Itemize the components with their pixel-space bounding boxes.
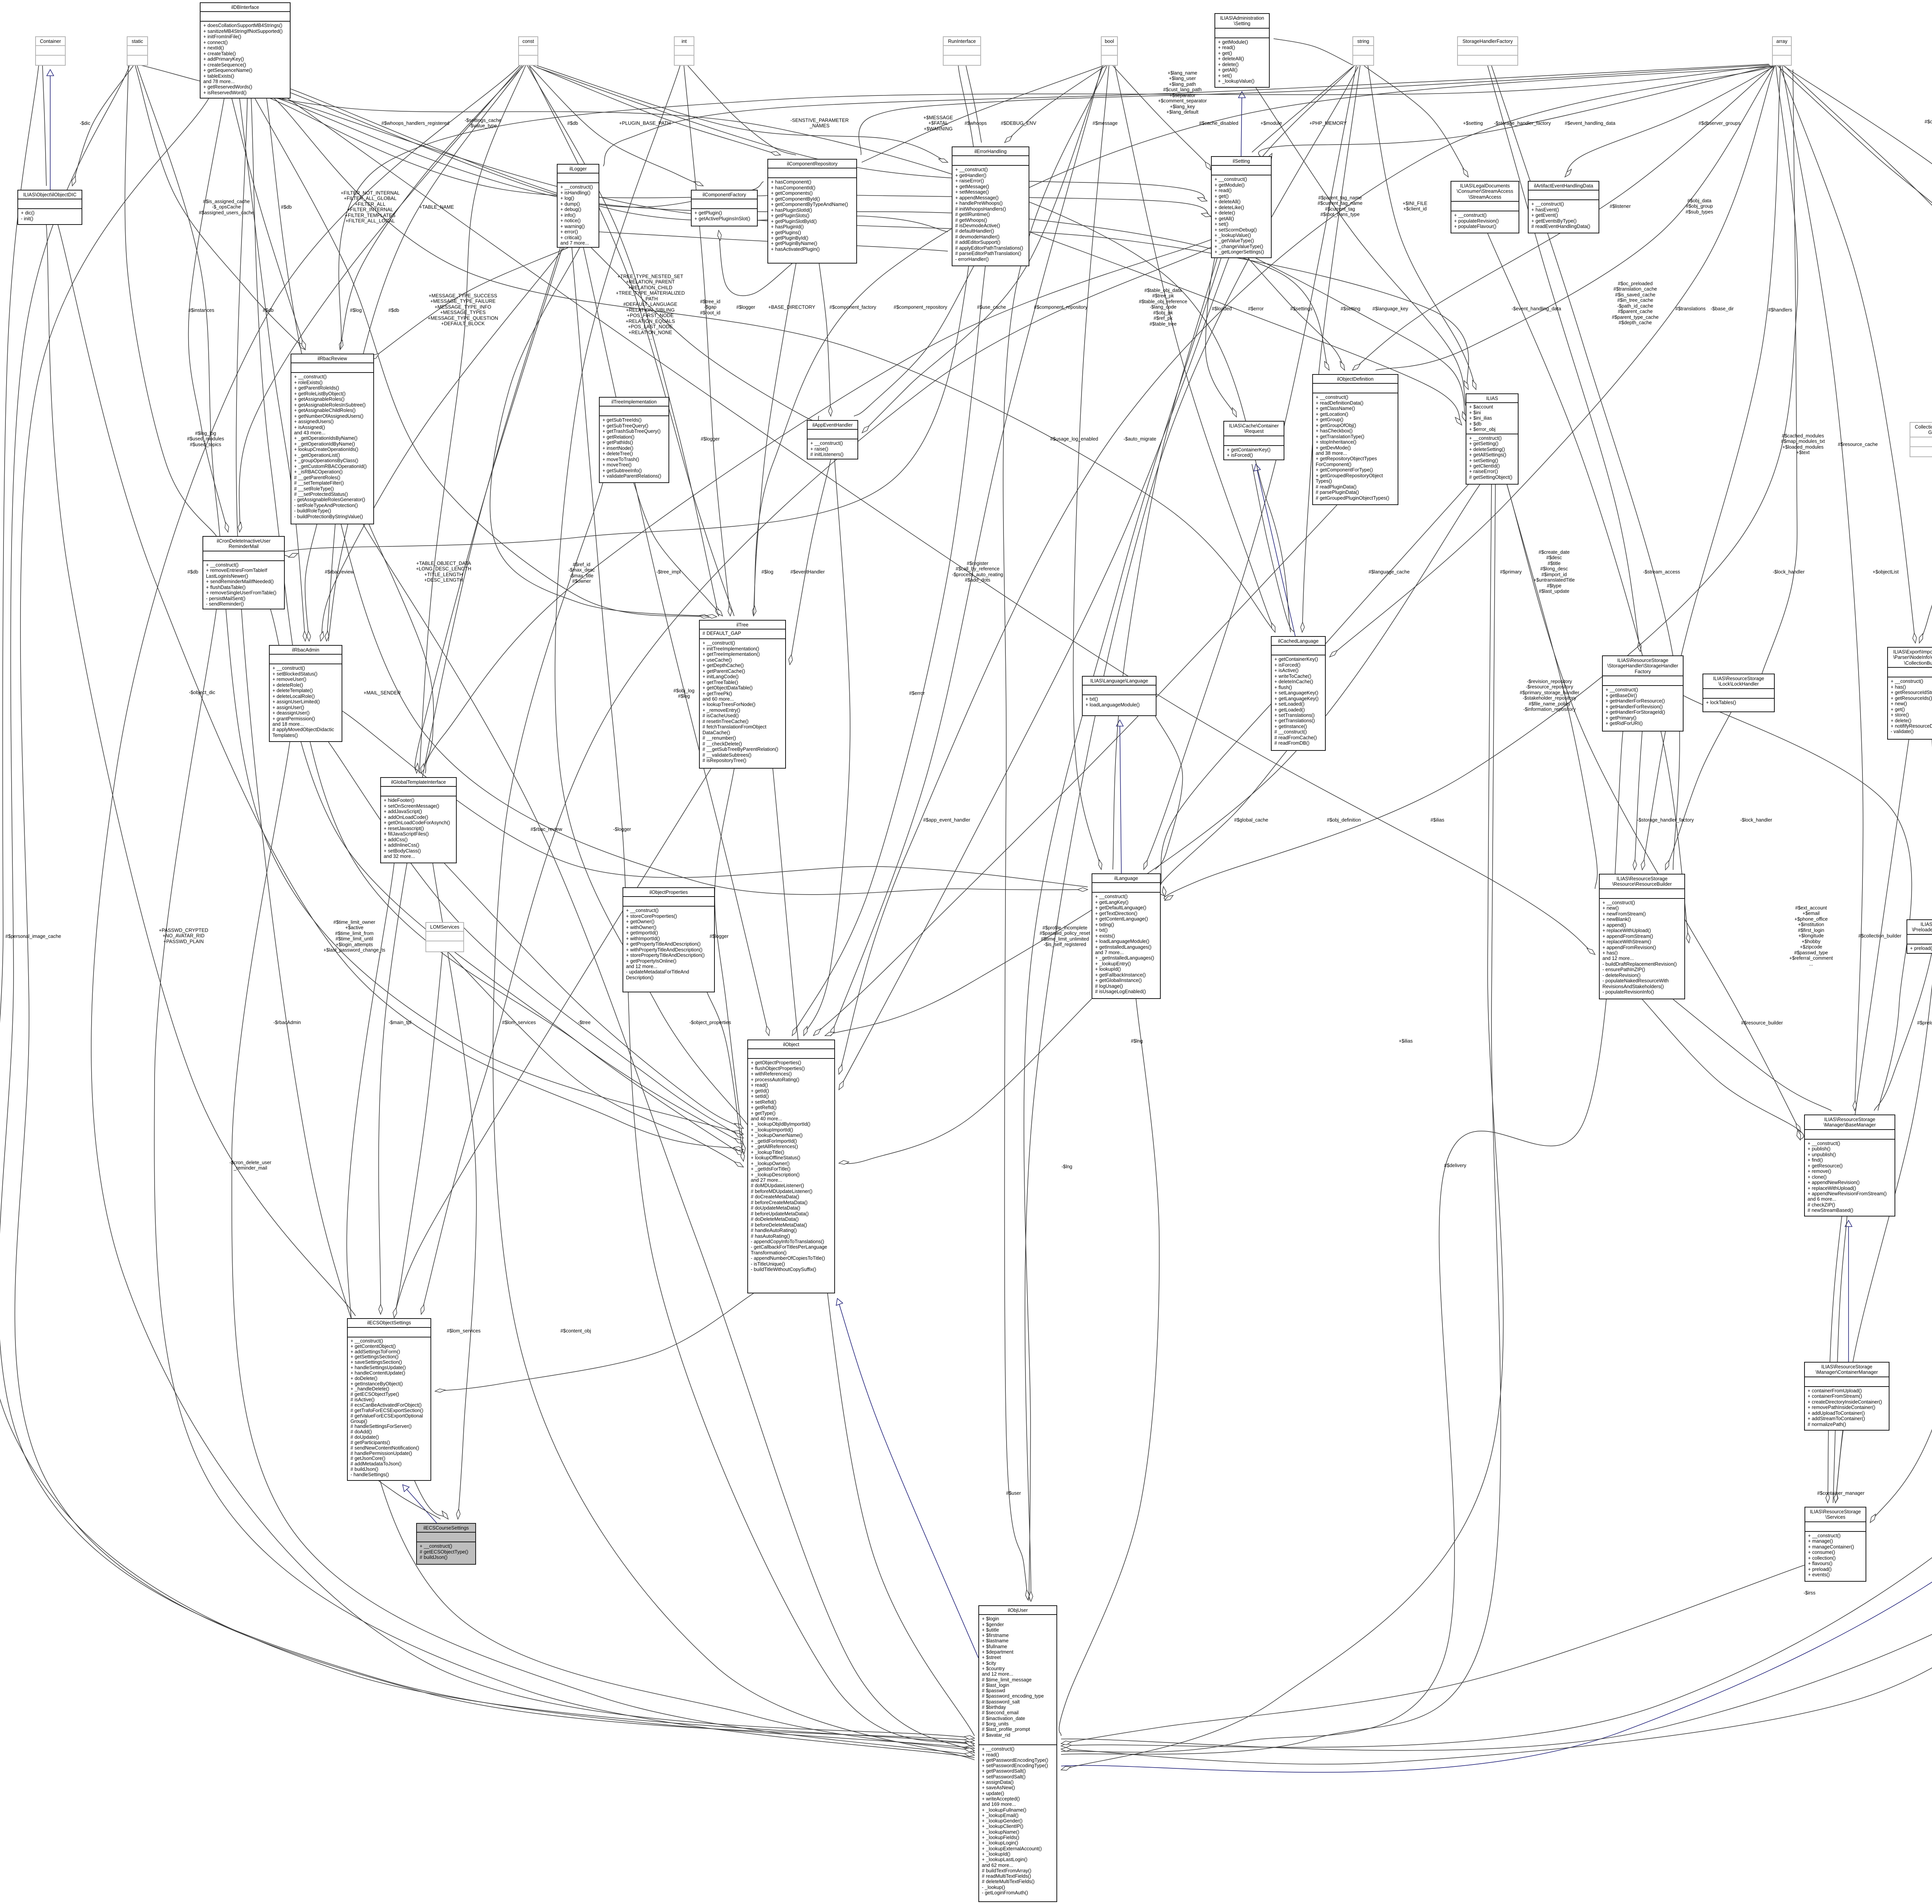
edge array-&gt;cachedlang bbox=[1330, 66, 1775, 657]
label #$handlers bbox=[1768, 307, 1792, 313]
class box artifactevent: ilArtifactEventHandlingData bbox=[1528, 181, 1599, 233]
edge string-&gt;cachecontainer bbox=[1206, 66, 1354, 417]
edge appevent-&gt;iltree bbox=[790, 459, 831, 665]
edge array-&gt;comprepo-arc bbox=[859, 65, 1770, 155]
label #$component_factory bbox=[829, 305, 876, 310]
label #$cached_modules bbox=[1781, 433, 1825, 456]
label #$content_obj bbox=[560, 1328, 591, 1334]
edge ilias-&gt;objuser2 bbox=[1061, 485, 1501, 1754]
edge objectdic-&gt;ecsobj bbox=[46, 225, 355, 1316]
edge illogger-&gt;ecsobj bbox=[379, 248, 560, 1314]
edge dbif-&gt;ecscourse bbox=[236, 99, 448, 1519]
edge static-&gt;ilObjectDIC bbox=[72, 66, 133, 186]
label #$lom_services bbox=[502, 1020, 536, 1025]
label #$dbserver_groups bbox=[1699, 121, 1741, 126]
edge ilObjUser-&gt;ilObject bbox=[837, 1298, 978, 1658]
label #$logger bbox=[736, 305, 755, 310]
edge bool-&gt;cachedlang bbox=[1115, 66, 1275, 632]
class box objuser: ilObjUser bbox=[978, 1605, 1057, 1902]
edge rbacreview-&gt;rbacadmin2 bbox=[328, 524, 348, 641]
label #$db bbox=[263, 308, 274, 313]
edge ilSetting-&gt;Administration.Setting bbox=[1241, 92, 1242, 156]
label #$oc_preloaded bbox=[1612, 281, 1658, 326]
edge Container-&gt;objectdic2 bbox=[43, 66, 46, 186]
label #$eventHandler bbox=[791, 569, 825, 575]
edge array-&gt;ilsetting bbox=[1259, 66, 1773, 162]
edge shfactory-&gt;resbuilder bbox=[1492, 66, 1680, 870]
label -$tree bbox=[578, 1020, 591, 1025]
label +$objectList bbox=[1872, 569, 1899, 575]
class box resbuilder: ILIAS\ResourceStorage \Resource\ResourceBuilder bbox=[1599, 874, 1685, 999]
edge dbif-&gt;objuser bbox=[15, 99, 975, 1741]
class box cron: ilCronDeleteInactiveUser ReminderMail bbox=[202, 536, 285, 609]
class box int: int bbox=[674, 36, 694, 66]
class box comprepo: ilComponentRepository bbox=[767, 159, 857, 264]
label #$use_cache bbox=[977, 305, 1006, 310]
edge runif-&gt;errorhandling bbox=[966, 66, 981, 143]
class box objdef: ilObjectDefinition bbox=[1312, 374, 1398, 505]
edge array-&gt;ilobject-arc bbox=[839, 67, 1771, 1074]
class box illogger: ilLogger bbox=[557, 164, 599, 248]
edge comprepo-&gt;iltree bbox=[753, 264, 796, 616]
label +$INI_FILE bbox=[1403, 201, 1427, 212]
class box string: string bbox=[1352, 36, 1374, 66]
edge string-&gt;cachedlang bbox=[1302, 66, 1360, 632]
label -$lock_handler bbox=[1740, 817, 1772, 823]
edge ilsetting-&gt;ilias bbox=[1256, 258, 1466, 421]
edge string-&gt;objuser bbox=[1025, 66, 1358, 1601]
edge bool-&gt;errorhandling bbox=[1005, 66, 1106, 143]
edge ilCachedLanguage-&gt;Cache.Container.Request bbox=[1256, 464, 1295, 636]
edge static-&gt;rbacreview bbox=[135, 66, 305, 350]
label #$rbac_review bbox=[531, 827, 562, 832]
label +FILTER_NOT_INTERNAL bbox=[341, 191, 400, 224]
label +PASSWD_CRYPTED bbox=[159, 927, 208, 944]
label #$component_repository bbox=[1034, 305, 1088, 310]
label #$user bbox=[1006, 1491, 1021, 1496]
label #$loaded bbox=[1212, 306, 1232, 311]
label +$ilias bbox=[1399, 1038, 1413, 1044]
edge containermanager-&gt;services bbox=[1835, 1431, 1843, 1503]
label -$main_tpl bbox=[389, 1020, 412, 1025]
edge ilsetting-&gt;objuser bbox=[1024, 258, 1221, 1601]
class box services: ILIAS\ResourceStorage \Services bbox=[1804, 1507, 1866, 1582]
edge bool-&gt;objuser bbox=[1003, 66, 1107, 1600]
edge bool-&gt;comprepo bbox=[862, 66, 1101, 162]
edge adminsetting-&gt;ilias bbox=[1256, 88, 1466, 406]
class box streamaccess: ILIAS\LegalDocuments \Consumer\StreamAccess \StreamAccess bbox=[1451, 181, 1519, 233]
edge dbif-&gt;ilobject bbox=[251, 99, 743, 1144]
edge objdef-&gt;ilobject bbox=[813, 505, 1337, 1036]
label -$cron_delete_user bbox=[230, 1160, 272, 1171]
class box lomservices: LOMServices bbox=[425, 922, 464, 952]
label #$error bbox=[909, 691, 925, 696]
class box ecsobj: ilECSObjectSettings bbox=[347, 1318, 431, 1481]
label #$db bbox=[567, 121, 578, 126]
edge ilLanguage-&gt;Language.Language bbox=[1120, 720, 1121, 873]
edge array-&gt;repository bbox=[1783, 66, 1932, 422]
class box rbacreview: ilRbacReview bbox=[291, 354, 374, 524]
label +$lang_name bbox=[1158, 70, 1207, 115]
label #$db bbox=[388, 308, 399, 313]
class box treeimpl: ilTreeImplementation bbox=[599, 397, 669, 483]
edge array-&gt;events_subject bbox=[1777, 66, 1932, 281]
label #$observer_groups bbox=[1925, 119, 1932, 124]
class box basemanager: ILIAS\ResourceStorage \Manager\BaseManager bbox=[1804, 1114, 1895, 1217]
label #$app_event_handler bbox=[923, 817, 970, 823]
class box bool: bool bbox=[1101, 36, 1118, 66]
label #$logger bbox=[709, 934, 728, 939]
edge ecsobj-course1 bbox=[379, 1481, 440, 1519]
label #$logger bbox=[701, 436, 719, 442]
edge errorhandling-&gt;ilias bbox=[1029, 232, 1462, 425]
class box ilias: ILIAS bbox=[1466, 393, 1519, 485]
label #$language_key bbox=[1372, 306, 1408, 311]
label -$event_handling_data bbox=[1512, 306, 1561, 311]
class box shstoragehandler: ILIAS\ResourceStorage \StorageHandler\StorageHandler Factory bbox=[1602, 655, 1684, 732]
label #$collection_builder bbox=[1858, 933, 1901, 939]
class box runif: RunInterface bbox=[943, 36, 981, 66]
edge ilias-&gt;illanguage bbox=[1161, 485, 1468, 885]
label #$register bbox=[952, 561, 1003, 583]
label #$DEBUG_ENV bbox=[1001, 121, 1036, 126]
edge ContainerManager-&gt;BaseManager bbox=[1848, 1220, 1849, 1362]
class box cachecontainer: ILIAS\Cache\Container \Request bbox=[1223, 421, 1284, 460]
edge rbacreview-&gt;objuser-long bbox=[363, 524, 975, 1753]
edge array-&gt;objdef2 bbox=[1376, 66, 1774, 370]
class box dbif: ilDBInterface bbox=[200, 2, 291, 99]
class box objprops: ilObjectProperties bbox=[622, 887, 715, 992]
class box gtpl: ilGlobalTemplateInterface bbox=[380, 777, 457, 863]
edge bool-&gt;ilobject bbox=[831, 66, 1102, 1036]
label +TABLE_NAME bbox=[419, 204, 454, 210]
edge comprepo-&gt;appevent bbox=[819, 264, 831, 416]
edge Container-&gt;objuser bbox=[0, 66, 975, 1744]
label -$storage_handler_factory bbox=[1494, 121, 1551, 126]
edge dbif-&gt;illanguage bbox=[267, 99, 1088, 895]
edge dbif-&gt;comprepo bbox=[291, 93, 764, 207]
edge string-&gt;ilias bbox=[1368, 66, 1476, 390]
edge array-&gt;basemanager bbox=[1782, 66, 1863, 1111]
edge int-&gt;iltree bbox=[684, 66, 730, 616]
label -$storage_handler_factory bbox=[1637, 817, 1694, 823]
edge ilECSCourseSettings-&gt;ilECSObjectSettings bbox=[403, 1485, 437, 1523]
label #$setting bbox=[1340, 306, 1360, 311]
label #$language_cache bbox=[1369, 569, 1410, 575]
edge dbif-&gt;rbacadmin bbox=[240, 99, 305, 641]
label #$obj_definition bbox=[1327, 817, 1361, 823]
edge dateformat-&gt;objuser bbox=[1061, 1558, 1932, 1764]
class box lockhandler: ILIAS\ResourceStorage \Lock\LockHandler bbox=[1702, 674, 1775, 712]
label #$db bbox=[281, 204, 292, 210]
label #$table_obj_data bbox=[1139, 288, 1187, 327]
edge streamaccess-&gt;resbuilder bbox=[1488, 233, 1689, 943]
edge lomservices-&gt;ecsobj bbox=[394, 952, 442, 1318]
label -$object_properties bbox=[689, 1020, 731, 1025]
edge ilsetting-&gt;gtpl bbox=[425, 240, 1211, 773]
label #$is_assigned_cache bbox=[199, 199, 254, 215]
edge iltree-&gt;objuser bbox=[773, 769, 975, 1736]
edge resbuilder-&gt;basemanager bbox=[1642, 999, 1804, 1140]
edge gtpl-&gt;objuser bbox=[347, 863, 975, 1751]
label #$container_manager bbox=[1817, 1491, 1865, 1496]
edge langlang-&gt;illanguage-r bbox=[1155, 716, 1183, 869]
edge array-&gt;objuser-right bbox=[1061, 66, 1932, 1747]
edge shstoragehandler-&gt;resbuilder bbox=[1634, 732, 1642, 870]
label #$component_repository bbox=[894, 305, 947, 310]
label +TREE_TYPE_NESTED_SET bbox=[616, 274, 685, 340]
edge const-&gt;ilsetting bbox=[537, 68, 1207, 201]
edge objectdic-&gt;ilobject bbox=[58, 225, 743, 1150]
label -$logger bbox=[613, 827, 631, 832]
edge right-arc-&gt;objuser bbox=[1061, 454, 1932, 1751]
label #$global_cache bbox=[1234, 817, 1268, 823]
label #$listener bbox=[1610, 204, 1631, 209]
edge ilias-&gt;objuser bbox=[1061, 485, 1503, 1770]
edge gtpl-&gt;ecscourse bbox=[433, 863, 476, 1519]
label #$delivery bbox=[1444, 1163, 1466, 1168]
edge array-&gt;collbuilder bbox=[1779, 66, 1915, 643]
edge bool-&gt;illanguage bbox=[1073, 66, 1109, 869]
class box iltree: ilTree bbox=[699, 620, 786, 769]
edge collbuilder-&gt;basemanager bbox=[1874, 740, 1932, 1111]
edge const-&gt;iltree2 bbox=[529, 66, 734, 616]
edge illogger-&gt;objuser-left bbox=[572, 248, 975, 1746]
label #$error bbox=[1248, 306, 1264, 311]
class box collbuilder: ILIAS\Export\ImportHandler \Parser\NodeInfo\Collection \CollectionBuilder bbox=[1887, 647, 1932, 740]
edge array-&gt;resbuilder bbox=[1642, 66, 1781, 870]
label #$ilias bbox=[1430, 817, 1444, 823]
edge rbacreview-&gt;rbacadmin bbox=[305, 524, 317, 641]
label +$module bbox=[1260, 121, 1282, 126]
label +$MESSAGE bbox=[923, 115, 953, 131]
label #$preloader bbox=[1917, 1020, 1932, 1026]
edge array-&gt;rbacreview-arc bbox=[339, 66, 1770, 350]
edge treeimpl-&gt;iltree bbox=[634, 483, 723, 616]
label +BASE_DIRECTORY bbox=[768, 305, 815, 310]
label #$whoops bbox=[964, 121, 986, 126]
edge cron-&gt;ilobject bbox=[270, 609, 743, 1155]
edge dbif-&gt;cron bbox=[189, 99, 228, 532]
edge objuser-&gt;Component(traits) bbox=[1061, 70, 1932, 1772]
label -$tree_impl bbox=[656, 569, 681, 575]
class box ilsetting: ilSetting bbox=[1211, 156, 1272, 258]
class box adminsetting: ILIAS\Administration \Setting bbox=[1214, 13, 1270, 88]
class box repopreloader: ILIAS\ResourceStorage \Preloader\RepositoryPreloader bbox=[1906, 919, 1932, 954]
label -$base_dir bbox=[1711, 306, 1734, 311]
edge cachedlang-&gt;illanguage bbox=[1158, 751, 1287, 897]
edge dbif-&gt;resbuilder bbox=[288, 99, 1595, 955]
edge gtpl-&gt;ilobject bbox=[444, 863, 743, 1128]
edge dbif-&gt;cachedlang bbox=[274, 99, 1275, 632]
label #$create_date bbox=[1534, 550, 1575, 594]
label #$cache_disabled bbox=[1199, 121, 1238, 126]
edge runif-&gt;cron bbox=[282, 66, 977, 557]
edge ilias-&gt;ilobject bbox=[825, 485, 1480, 1036]
class box static: static bbox=[127, 36, 148, 66]
class box langlang: ILIAS\Language\Language bbox=[1082, 676, 1156, 716]
class box collid: CollectionIdentification Generator bbox=[1910, 422, 1932, 457]
edge rbacadmin-&gt;objuser bbox=[232, 742, 975, 1755]
edge int-&gt;comprepo bbox=[688, 66, 796, 155]
edge const-&gt;errorhandling bbox=[537, 66, 948, 162]
label +$setting bbox=[1463, 121, 1483, 126]
edge ilsetting-&gt;objdef bbox=[1248, 258, 1345, 370]
edge const-&gt;compfactory bbox=[529, 66, 703, 186]
class box objectdic: ILIAS\Object\ilObjectDIC bbox=[17, 190, 82, 225]
label -$irss bbox=[1804, 1590, 1816, 1596]
label -SENSTIVE_PARAMETER bbox=[791, 118, 849, 129]
edge repopreloader-&gt;services bbox=[1835, 954, 1932, 1503]
edge illogger-&gt;gtpl bbox=[415, 248, 562, 773]
label -$revision_repository bbox=[1520, 679, 1579, 713]
edge ilsetting-&gt;ecsobj bbox=[421, 247, 1211, 1314]
edge shfactory-&gt;shstoragehandler bbox=[1488, 66, 1640, 652]
label #$usage_log_enabled bbox=[1050, 436, 1098, 442]
class box rbacadmin: ilRbacAdmin bbox=[269, 645, 342, 742]
class box compfactory: ilComponentFactory bbox=[691, 190, 758, 226]
class box array: array bbox=[1772, 36, 1792, 66]
edge objprops-&gt;ilobject bbox=[707, 992, 743, 1161]
label #$ref_id bbox=[568, 562, 595, 584]
edge ilias-&gt;resbuilder bbox=[1507, 485, 1597, 889]
label -$dic bbox=[80, 121, 90, 126]
edge cron-&gt;objuser bbox=[154, 609, 975, 1758]
edge lomservices-&gt;ilobject bbox=[448, 952, 743, 1167]
edge resbuilder-&gt;basemanager2 bbox=[1673, 999, 1832, 1111]
label #$time_limit_owner bbox=[323, 920, 385, 953]
edge static-&gt;objuser bbox=[0, 66, 975, 1748]
edge string-&gt;adminsetting bbox=[1274, 39, 1352, 65]
edge services-&gt;objuser bbox=[1061, 1565, 1804, 1744]
edge ilias-&gt;basemanager bbox=[1507, 485, 1801, 1132]
edge illogger-&gt;iltree bbox=[490, 248, 717, 617]
edge array-&gt;iltree-arc bbox=[753, 66, 1772, 616]
edge const-&gt;rbacadmin bbox=[327, 66, 522, 641]
edge rbacadmin-&gt;illanguage bbox=[342, 711, 1088, 887]
label #$ext_account bbox=[1789, 905, 1833, 967]
label #$translations bbox=[1675, 306, 1706, 311]
edge illogger-&gt;errorhandling bbox=[599, 232, 948, 251]
class box shfactory: StorageHandlerFactory bbox=[1457, 36, 1518, 66]
edge dbif-&gt;rbacreview bbox=[232, 99, 305, 350]
label -$stream_access bbox=[1643, 569, 1680, 575]
edge static-&gt;cachedlang bbox=[139, 65, 1291, 632]
edge illanguage-&gt;objuser bbox=[1059, 999, 1159, 1736]
edge ilsetting-&gt;illanguage bbox=[1113, 258, 1217, 869]
edge rbacreview-&gt;gtpl bbox=[369, 524, 434, 773]
label #$db bbox=[187, 569, 198, 575]
edge collbuilder-&gt;services bbox=[1828, 740, 1909, 1503]
edge const-&gt;cron bbox=[239, 66, 522, 532]
edge errorhandling-&gt;ilobject bbox=[792, 266, 985, 1036]
edge dbif-&gt;iltree bbox=[255, 99, 709, 617]
edge static-&gt;cron bbox=[125, 66, 216, 536]
label -$lng bbox=[1061, 1164, 1072, 1169]
class box cachedlang: ilCachedLanguage bbox=[1271, 636, 1326, 751]
edge basemanager-&gt;services bbox=[1833, 1217, 1847, 1503]
edge const-&gt;objuser-left bbox=[91, 66, 975, 1738]
edge illogger-&gt;appevent bbox=[591, 248, 819, 421]
edge rbacadmin-&gt;ilobject bbox=[328, 742, 743, 1138]
label #$log bbox=[762, 569, 774, 575]
edge appevent-&gt;ilobject bbox=[804, 459, 850, 1036]
label -$rbacAdmin bbox=[273, 1020, 301, 1025]
label #$lng_log bbox=[187, 430, 224, 447]
label #$lom_services bbox=[447, 1328, 481, 1334]
edge array-&gt;illanguage-cached bbox=[1164, 66, 1798, 900]
edge errorhandling-&gt;appevent bbox=[854, 266, 974, 416]
label +PHP_MEMORY bbox=[1310, 121, 1347, 126]
edge bool-&gt;ilsetting bbox=[1113, 66, 1211, 170]
label #$resource_builder bbox=[1741, 1020, 1783, 1026]
class box containermanager: ILIAS\ResourceStorage \Manager\ContainerManager bbox=[1804, 1362, 1889, 1431]
label #$obj_log bbox=[673, 688, 695, 699]
label #$obj_data bbox=[1685, 198, 1713, 214]
label +PLUGIN_BASE_PATH bbox=[619, 121, 671, 126]
edge string-&gt;ilsetting bbox=[1252, 66, 1353, 152]
label #$primary bbox=[1500, 569, 1522, 575]
edge lockhandler-up bbox=[1762, 70, 1797, 674]
label #$lng bbox=[1131, 1038, 1143, 1044]
class box illanguage: ilLanguage bbox=[1092, 873, 1161, 999]
class box appevent: ilAppEventHandler bbox=[807, 420, 858, 459]
label #$profile_incomplete bbox=[1040, 925, 1090, 948]
edge const-&gt;rbacreview bbox=[340, 66, 524, 350]
class box ecscourse: ilECSCourseSettings bbox=[416, 1523, 476, 1565]
edge dbif-&gt;errorhandling bbox=[291, 89, 948, 232]
edge iltree-&gt;ilobject bbox=[715, 769, 744, 1154]
label #$instances bbox=[188, 308, 214, 313]
edge collid-&gt;collbuilder bbox=[1919, 457, 1932, 643]
class box const: const bbox=[518, 36, 538, 66]
label #$message bbox=[1092, 121, 1117, 126]
edge const-&gt;gtpl2 bbox=[419, 66, 526, 773]
edge bool-&gt;appevent bbox=[862, 66, 1103, 433]
edge lockhandler-&gt;resbuilder bbox=[1665, 712, 1731, 870]
edge ilsetting-&gt;ilobject bbox=[839, 258, 1229, 1090]
edge array-&gt;illogger-arc bbox=[603, 64, 1769, 166]
edge static-&gt;ilobject bbox=[137, 66, 743, 1134]
edge events_subject-&gt;services bbox=[1870, 337, 1932, 1523]
edge treeimpl-&gt;objuser bbox=[493, 483, 975, 1760]
edge const-&gt;iltree bbox=[527, 66, 719, 616]
edge array-&gt;objdef bbox=[1352, 66, 1774, 370]
label -$object_dic bbox=[189, 690, 215, 695]
edge dbif-&gt;ilias bbox=[282, 99, 1469, 390]
label #$personal_image_cache bbox=[5, 934, 61, 939]
edge string-&gt;illanguage bbox=[1144, 66, 1356, 869]
label -$auto_migrate bbox=[1124, 436, 1156, 442]
label -$settings_cache bbox=[464, 118, 501, 129]
label #$rbacreview bbox=[325, 569, 354, 575]
edge dbif-&gt;objdef bbox=[278, 99, 1329, 370]
edge comprepo-&gt;compfactory bbox=[719, 230, 792, 296]
label #$resource_cache bbox=[1838, 442, 1878, 447]
label -$lock_handler bbox=[1773, 569, 1805, 575]
edge ilObjectDIC-&gt;Container bbox=[50, 70, 51, 190]
edge illogger-&gt;ilobject bbox=[583, 248, 769, 1036]
label +TABLE_OBJECT_DATA bbox=[416, 561, 471, 583]
label #$parent_tag_name bbox=[1318, 195, 1362, 218]
edge int-&gt;ilobject bbox=[555, 66, 747, 1125]
edge dbif-&gt;ilsetting bbox=[270, 99, 1211, 216]
edge iltree-&gt;ecsobj bbox=[394, 769, 711, 1314]
edge shstoragehandler-r-&gt;basemanager bbox=[1684, 696, 1912, 1111]
edge illogger-&gt;rbacreview bbox=[371, 248, 568, 359]
label #$whoops_handlers_registered bbox=[381, 121, 449, 126]
edge illanguage-&gt;ilobject bbox=[839, 999, 1092, 1164]
